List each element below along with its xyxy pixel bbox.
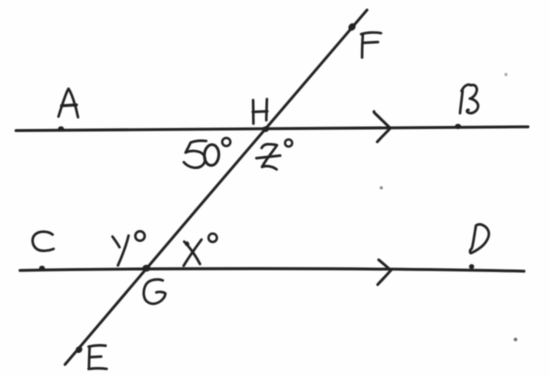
scan speck 1 [504,73,507,76]
point A [58,126,64,131]
label B [460,85,478,114]
line EF (transversal) [65,10,367,365]
point H (junction of EF and AB) [262,126,268,132]
label D [470,224,489,253]
label z degrees [256,139,292,169]
line CD (bottom parallel line) [20,269,524,272]
point G (junction of EF and CD) [142,265,150,272]
label H [253,99,268,124]
point E [74,345,84,355]
point C [39,266,45,271]
label F [361,33,381,58]
scan speck 2 [514,338,518,342]
point B [455,124,461,129]
label x degrees [184,234,217,266]
label G [144,279,166,303]
label 50 degrees [184,138,231,168]
arrow on line CD [378,260,391,285]
label A [59,89,79,118]
point F [347,22,357,32]
label C [33,232,54,251]
label y degrees [113,231,145,265]
scan speck 3 [380,186,383,189]
point D [469,264,474,269]
line AB (top parallel line) [16,127,528,131]
arrow on line AB [374,112,390,142]
label E [89,345,107,369]
